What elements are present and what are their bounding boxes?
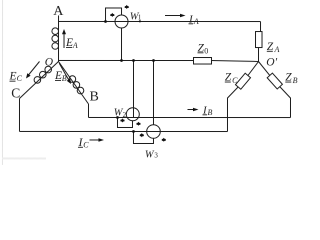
svg-text:A: A: [274, 45, 280, 54]
scan artifact: faint left edge line: [1, 0, 3, 165]
junction dot neutral/W1 lead: [120, 59, 123, 62]
svg-text:B: B: [89, 90, 98, 105]
asterisk W1 voltage coil: [124, 5, 129, 9]
wire: Z_B to bottom corner: [280, 87, 291, 118]
wire: Z_C to bottom corner, down to line C: [227, 87, 238, 132]
wire: B phase drop from coil to line B: [87, 104, 89, 118]
coil phase C (winding): [19, 61, 58, 98]
svg-text:B: B: [62, 74, 67, 83]
svg-text:O′: O′: [266, 56, 277, 68]
wire: line A top horizontal: [59, 20, 261, 22]
node A terminal stub: [58, 15, 60, 21]
wire: Z_A to O': [258, 48, 260, 62]
wattmeter W2 current loop below wire: [117, 117, 132, 127]
arrow EMF E_B (down-right): [59, 63, 69, 80]
asterisk W3 field coil: [139, 133, 144, 137]
wattmeter W1 voltage lead down to neutral: [121, 28, 123, 61]
junction dot W3 loop on line C: [132, 130, 135, 133]
svg-text:C: C: [83, 140, 89, 149]
svg-text:2: 2: [123, 111, 127, 119]
wire: line B horizontal: [88, 116, 290, 118]
scan artifact: faint bottom-left smudge: [2, 157, 46, 159]
wire: line C horizontal: [19, 130, 227, 132]
coil phase B (winding): [58, 61, 88, 104]
asterisk W2 field coil: [120, 118, 125, 122]
arrow current I_A: [165, 15, 181, 17]
impedance Z_B box (rotated): [267, 73, 282, 89]
wattmeter W2 voltage lead up to neutral: [132, 60, 134, 117]
svg-text:O: O: [45, 56, 54, 68]
wire: C phase drop from coil to line C: [18, 98, 20, 131]
svg-text:A: A: [72, 41, 78, 50]
wattmeter W3 circle: [147, 125, 161, 139]
wire: Z_0 to O': [212, 61, 259, 62]
svg-text:3: 3: [154, 152, 158, 160]
svg-text:B: B: [293, 76, 298, 85]
junction dot below W1 subscript: [139, 20, 141, 22]
junction dot neutral/W3 lead: [152, 59, 155, 62]
wattmeter W1 circle: [115, 15, 128, 28]
wattmeter W3 voltage lead up to neutral: [152, 61, 154, 125]
svg-text:E: E: [9, 70, 17, 82]
asterisk W1 field coil: [110, 13, 115, 17]
arrow current I_C: [89, 139, 99, 141]
arrow current I_B: [187, 109, 194, 111]
svg-text:C: C: [17, 74, 23, 83]
coil phase A (winding): [58, 21, 60, 61]
wattmeter W1 current loop: [106, 8, 122, 22]
wire: O' to Z_C diagonal upper: [248, 62, 259, 76]
svg-text:A: A: [53, 4, 64, 19]
impedance Z_0 box: [194, 58, 212, 65]
svg-text:A: A: [193, 17, 199, 26]
junction dot neutral/W2 lead: [132, 59, 135, 62]
impedance Z_A box: [256, 32, 263, 48]
arrow EMF E_A (up): [63, 33, 65, 48]
svg-text:C: C: [11, 85, 20, 100]
asterisk W3 voltage coil: [161, 138, 166, 142]
junction dot W1 loop on line A: [104, 20, 107, 23]
junction dot W2 loop on line B: [116, 116, 119, 119]
svg-text:1: 1: [138, 14, 142, 22]
wire: O' to Z_B diagonal upper: [259, 62, 270, 76]
svg-text:0: 0: [204, 46, 208, 55]
asterisk W2 voltage coil: [136, 122, 141, 126]
wire: right side vertical down to Z_A: [260, 22, 262, 32]
svg-text:B: B: [207, 108, 212, 117]
wire: neutral O to Z_0: [59, 59, 193, 61]
wattmeter W3 current loop below wire: [133, 131, 153, 143]
arrow EMF E_C (down-left): [29, 61, 40, 75]
wattmeter W2 circle: [126, 108, 139, 121]
impedance Z_C box (rotated): [235, 73, 250, 89]
svg-text:C: C: [232, 76, 238, 85]
